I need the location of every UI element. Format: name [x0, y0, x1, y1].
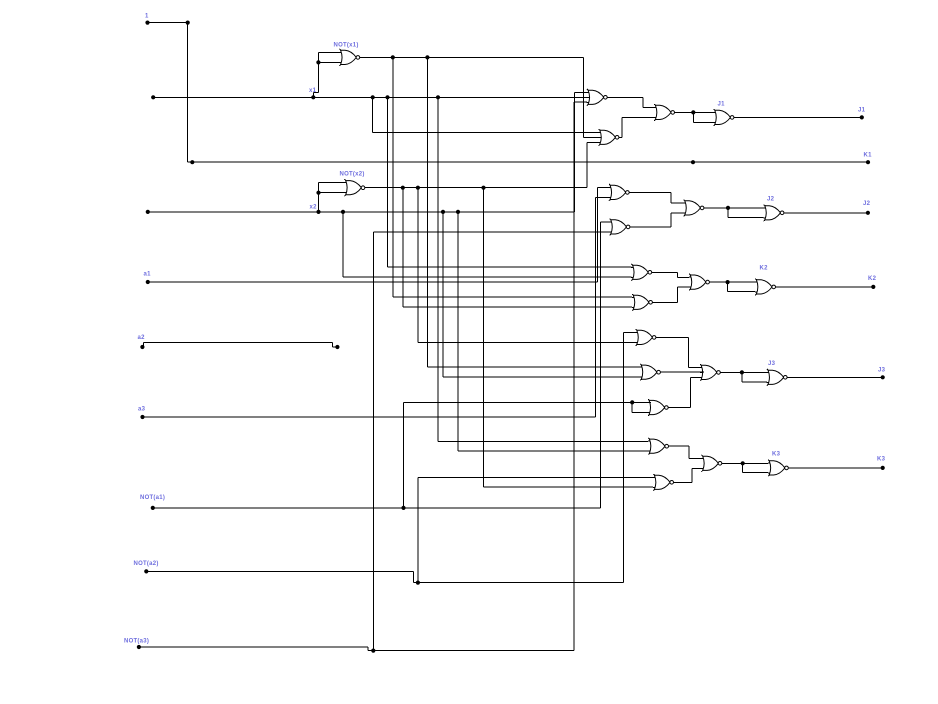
junction NOT(x1) tied input [316, 60, 320, 64]
wire J3c out to B3 [721, 371, 742, 373]
wire x1 branch to G1b top [372, 97, 374, 132]
junction NOT(a3)/G2b branch [371, 649, 375, 653]
svg-text:a1: a1 [144, 272, 152, 278]
node K2 output terminal [868, 276, 877, 289]
node x1 terminal [151, 95, 155, 99]
node J3 output terminal [878, 368, 886, 380]
svg-text:J1: J1 [858, 108, 866, 114]
not-buffer B4 (K3) [768, 460, 789, 477]
nor-gate G1a [587, 89, 608, 106]
junction NOT(a1)/J3 branch [401, 506, 405, 510]
wire NOT(x2) branch to K2b bottom [402, 188, 404, 308]
junction on 1-row [186, 21, 190, 25]
wire J3b out to J3c mid [661, 371, 704, 373]
svg-text:K3: K3 [772, 452, 781, 458]
wire K2 output row [776, 286, 874, 288]
nor-gate G1b (3-input) [598, 129, 619, 146]
svg-text:J1: J1 [718, 102, 726, 108]
wire B2k input jogs [728, 281, 756, 283]
junction x1 branch2 [385, 95, 389, 99]
junction x1 branch3 [436, 95, 440, 99]
wire K2a out to K2c top [652, 271, 678, 273]
wire NOT(a1)/J3 row [404, 401, 652, 403]
svg-text:x1: x1 [309, 88, 317, 94]
wire NOT(a3) up to G2b bottom row [372, 232, 374, 650]
junction x2 branch1 [341, 210, 345, 214]
node J2 output terminal [863, 201, 871, 215]
svg-text:J2: J2 [863, 201, 871, 207]
not-buffer B2k (K2) [755, 279, 776, 296]
wire x2 to NOT(x2) input jog [318, 183, 320, 212]
wire NOT(x1) branch to K2b top [392, 57, 394, 297]
wire J3d input jogs [631, 402, 633, 412]
not-buffer B3 (J3) [767, 369, 788, 386]
wire a1 up to G2a top [596, 187, 598, 282]
svg-text:NOT(x2): NOT(x2) [340, 171, 365, 177]
node NOT(a1) terminal [140, 495, 165, 510]
wire J1 output row [734, 116, 862, 118]
wire a3 row [143, 416, 596, 418]
nor-gate G1c [654, 104, 675, 121]
svg-text:1: 1 [145, 14, 149, 20]
wire K2c out to B2k [710, 281, 728, 283]
junction K1 mid [691, 160, 695, 164]
svg-text:K1: K1 [864, 153, 873, 159]
wire K2b out to K2c bottom [653, 301, 678, 303]
wire B2 input jogs [728, 207, 764, 209]
junction NOT(x1) branch 2 [425, 55, 429, 59]
wire NOT(x1) branch to J3b top [426, 57, 428, 367]
node a3 terminal [138, 407, 146, 420]
wire x1 branch to K2a top [387, 97, 389, 267]
wire K3b out to K3c bottom [674, 481, 693, 483]
wire x2 branch to J3b bottom [442, 212, 444, 377]
wire K3 output row [789, 467, 883, 469]
junction B3 tied input [740, 370, 744, 374]
junction x2/NOT(x2) feed [316, 210, 320, 214]
svg-text:J3: J3 [768, 361, 776, 367]
svg-text:NOT(x1): NOT(x1) [334, 42, 359, 48]
nor-gate J3c (3-input) [700, 364, 721, 381]
junction NOT(x2) tied input [316, 191, 320, 195]
node NOT(a2) terminal [134, 561, 159, 574]
wire x1 row [153, 96, 591, 98]
wire NOT(x1) down to G1b [582, 57, 584, 137]
wire G2c out to B2 [704, 207, 728, 209]
nor-gate G2c [683, 200, 704, 217]
not-buffer B1 (J1) [713, 109, 734, 126]
wire G1a out to G1c top [607, 96, 643, 98]
wire G2b out to G2c bottom [630, 226, 671, 228]
node a2 stub end [335, 345, 339, 349]
nor-gate K3b [653, 474, 674, 491]
wire K1 row [188, 161, 868, 163]
wire NOT(x2) up to G1b bottom [586, 142, 588, 187]
junction K1 left [190, 160, 194, 164]
wire G1b out to G1c bottom [619, 136, 622, 138]
wire NOT(x2) branch to K3b bottom [483, 188, 485, 488]
node K1 output terminal [864, 153, 873, 165]
node NOT(a3) terminal [124, 639, 149, 650]
nor-gate K2a [631, 264, 652, 281]
nor-gate G2b [609, 219, 630, 236]
wire NOT(a1) up to G2b top [599, 222, 601, 508]
wire x2 up to G1a top [574, 92, 576, 212]
nor-gate K2c [689, 274, 710, 291]
wire NOT(a2) branch up to K3b top [417, 477, 419, 582]
wire NOT(x2) branch to J3a bottom [417, 188, 419, 343]
junction NOT(a2)/K3b branch [416, 581, 420, 585]
wire J3d out to J3c bottom [668, 407, 690, 409]
wire x2 branch to K3a bottom [457, 212, 459, 451]
svg-text:x2: x2 [310, 205, 318, 211]
wire NOT(x2) output row [365, 187, 587, 189]
junction NOT(x2) branch 1 [401, 186, 405, 190]
wire x1 to NOT(x1) input jog [312, 92, 314, 97]
junction NOT(x2) branch 3 [481, 186, 485, 190]
nor-gate K3c [701, 455, 722, 472]
wire NOT(x1) output row [360, 56, 584, 58]
nor-gate J3b [640, 364, 661, 381]
wire B3 input jogs [742, 371, 767, 373]
wire J3a out to J3c top [656, 336, 688, 338]
junction B2k tied input [726, 280, 730, 284]
wire K3a out to K3c top [669, 445, 690, 447]
junction B2 tied input [726, 206, 730, 210]
nor-gate G2a [609, 184, 630, 201]
wire J2 output row [784, 212, 868, 214]
wire a2 stub [142, 346, 143, 348]
junction B4 tied input [741, 461, 745, 465]
svg-text:K3: K3 [877, 457, 886, 463]
wire NOT(a2) row [146, 570, 413, 572]
wire J3 output row [787, 376, 882, 378]
junction x2 branch3 [456, 210, 460, 214]
wire G1c out to B1 [675, 111, 694, 113]
node K3 output terminal [877, 457, 886, 471]
nor-gate K2b [632, 294, 653, 311]
wire 1 to K1 vertical [187, 23, 189, 163]
not-buffer B2 (J2) [763, 205, 784, 222]
svg-text:a2: a2 [138, 335, 146, 341]
svg-text:a3: a3 [138, 407, 146, 413]
wire NOT(a1) row [153, 507, 601, 509]
svg-text:K2: K2 [868, 276, 877, 282]
wire G2a out to G2c top [629, 191, 670, 193]
wire a1 row [148, 281, 598, 283]
not-gate U2 NOT(x2) [344, 179, 365, 196]
wire x2 branch to K2a bottom [342, 212, 344, 277]
svg-text:J3: J3 [878, 368, 886, 374]
svg-text:J2: J2 [767, 197, 775, 203]
node 1 (constant input) [145, 14, 150, 25]
nor-gate K3a [648, 438, 669, 455]
wire NOT(a3) row [139, 646, 368, 648]
wire NOT(a2) up right-side vertical [622, 332, 624, 582]
wire a3 up to G2a bottom [595, 197, 597, 417]
wire 1-row [148, 22, 188, 24]
wire NOT(a3) up to G1a bottom [573, 102, 575, 650]
node x2 terminal [146, 210, 150, 214]
wire right vertical top stub into J3a top [624, 331, 636, 333]
not-gate J3d [648, 399, 669, 416]
wire NOT(a1) up to J3 row [403, 402, 405, 508]
junction NOT(x1) branch 1 [391, 55, 395, 59]
node a2 terminal [138, 335, 146, 349]
junction B1 tied input [691, 110, 695, 114]
junction x1 branch1 [371, 95, 375, 99]
wire B4 input jogs [743, 462, 768, 464]
wire K3c out to B4 [722, 462, 743, 464]
junction x1/NOT(x1) feed [311, 95, 315, 99]
node J1 output terminal [858, 108, 866, 120]
wire x2 row [148, 211, 575, 213]
junction J3d tied input [630, 400, 634, 404]
nor-gate J3a [635, 329, 656, 346]
svg-text:K2: K2 [760, 266, 769, 272]
node a1 terminal [144, 272, 152, 285]
svg-text:NOT(a1): NOT(a1) [140, 495, 165, 501]
wire x1 branch to K3a top [437, 97, 439, 441]
svg-text:NOT(a2): NOT(a2) [134, 561, 159, 567]
wire B1 input jogs [693, 111, 713, 113]
junction NOT(x2) branch 2 [416, 186, 420, 190]
junction x2 branch2 [441, 210, 445, 214]
not-gate U1 NOT(x1) [339, 49, 360, 66]
svg-text:NOT(a3): NOT(a3) [124, 639, 149, 645]
